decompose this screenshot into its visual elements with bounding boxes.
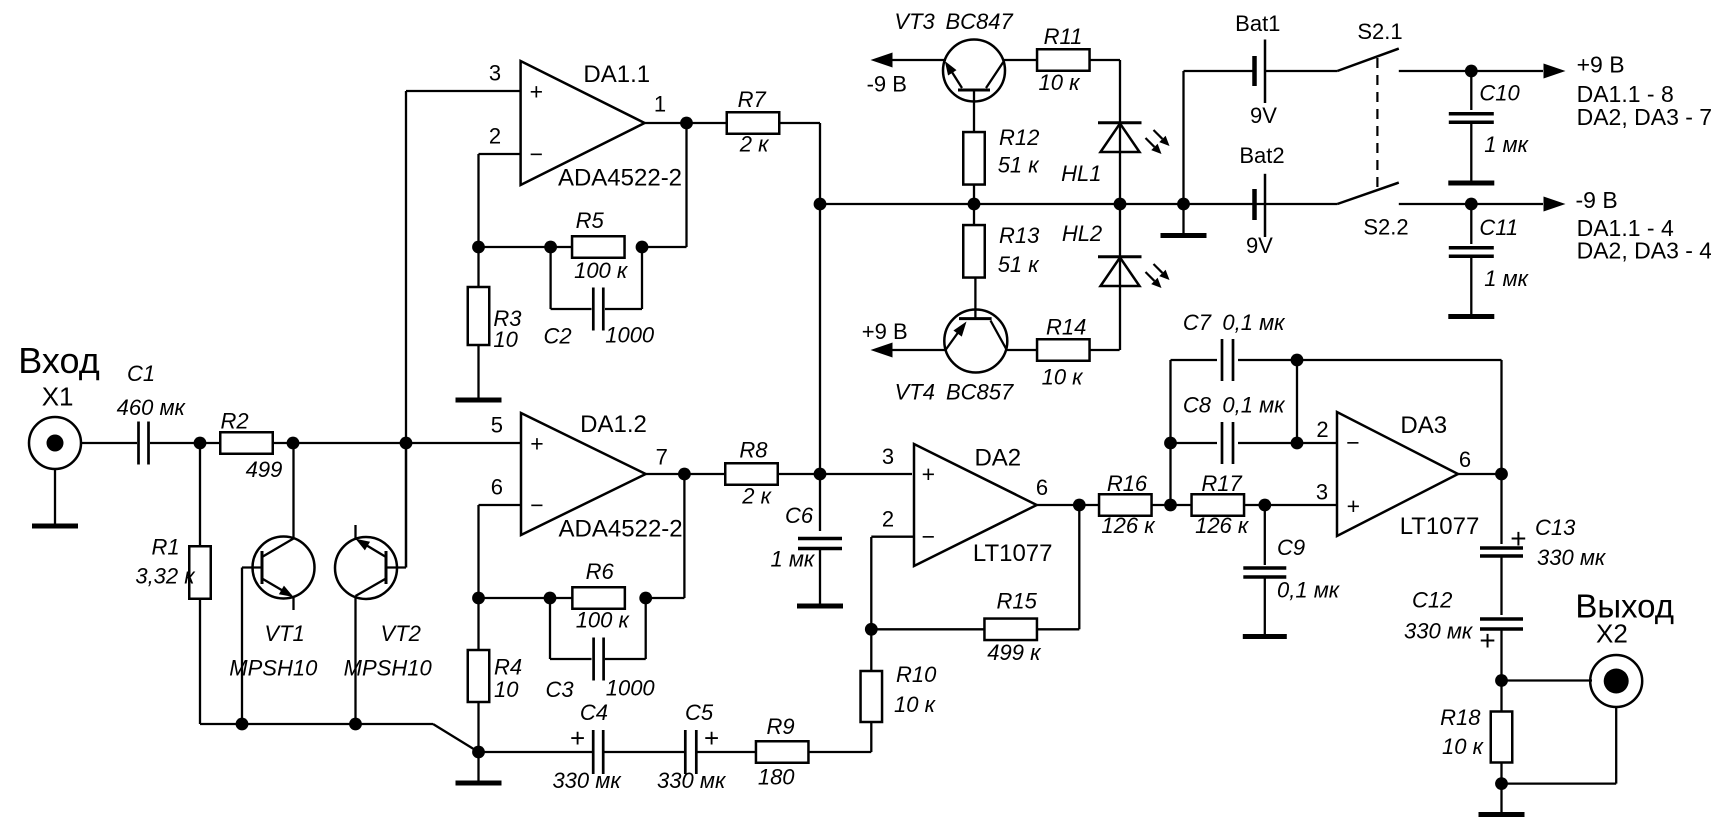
- svg-text:-9 В: -9 В: [867, 71, 907, 96]
- svg-text:Вход: Вход: [18, 340, 99, 381]
- svg-text:10 к: 10 к: [894, 692, 937, 717]
- svg-text:330 мк: 330 мк: [1537, 545, 1607, 570]
- svg-text:DA1.1: DA1.1: [583, 61, 650, 88]
- svg-text:HL1: HL1: [1061, 161, 1101, 186]
- svg-text:460 мк: 460 мк: [117, 395, 187, 420]
- svg-text:499: 499: [246, 457, 283, 482]
- svg-text:X1: X1: [42, 381, 74, 411]
- svg-text:VT3: VT3: [894, 9, 935, 34]
- svg-text:R18: R18: [1440, 705, 1481, 730]
- svg-text:C10: C10: [1479, 81, 1520, 106]
- svg-text:ADA4522-2: ADA4522-2: [559, 515, 683, 542]
- svg-text:S2.2: S2.2: [1363, 215, 1408, 240]
- svg-text:C2: C2: [543, 324, 571, 349]
- svg-text:−: −: [1346, 429, 1359, 455]
- svg-text:2: 2: [1316, 417, 1328, 442]
- svg-text:R11: R11: [1044, 24, 1083, 49]
- svg-text:6: 6: [1036, 475, 1048, 500]
- svg-text:R8: R8: [739, 438, 768, 463]
- svg-text:R14: R14: [1046, 314, 1086, 339]
- svg-text:+: +: [1479, 625, 1495, 656]
- svg-text:+: +: [570, 723, 585, 753]
- svg-text:Bat2: Bat2: [1239, 143, 1284, 168]
- svg-text:BC847: BC847: [946, 9, 1014, 34]
- svg-text:+9 В: +9 В: [1577, 52, 1625, 78]
- svg-text:BC857: BC857: [946, 379, 1014, 404]
- svg-text:126 к: 126 к: [1101, 513, 1156, 538]
- svg-text:3: 3: [882, 444, 894, 469]
- svg-text:+: +: [530, 78, 543, 104]
- svg-text:+: +: [704, 723, 719, 753]
- svg-text:0,1 мк: 0,1 мк: [1277, 578, 1341, 603]
- svg-text:R6: R6: [586, 559, 615, 584]
- svg-text:R9: R9: [767, 714, 795, 739]
- svg-text:100 к: 100 к: [576, 608, 631, 633]
- svg-text:−: −: [922, 524, 935, 550]
- svg-text:VT2: VT2: [381, 621, 421, 646]
- svg-text:R16: R16: [1107, 471, 1148, 496]
- svg-text:C8: C8: [1183, 393, 1212, 418]
- svg-text:0,1 мк: 0,1 мк: [1222, 310, 1286, 335]
- svg-text:R4: R4: [494, 655, 522, 680]
- svg-text:C4: C4: [580, 700, 608, 725]
- svg-text:10: 10: [494, 677, 519, 702]
- svg-text:9V: 9V: [1246, 233, 1273, 258]
- svg-text:330 мк: 330 мк: [552, 768, 622, 793]
- svg-text:180: 180: [758, 765, 795, 790]
- svg-text:51 к: 51 к: [998, 252, 1041, 277]
- svg-text:DA3: DA3: [1400, 412, 1447, 439]
- svg-text:X2: X2: [1596, 618, 1628, 648]
- svg-text:VT4: VT4: [895, 379, 935, 404]
- svg-text:+: +: [1347, 493, 1360, 519]
- svg-text:DA1.2: DA1.2: [580, 411, 647, 438]
- svg-text:3,32 к: 3,32 к: [135, 564, 196, 589]
- svg-text:MPSH10: MPSH10: [229, 656, 318, 681]
- svg-text:−: −: [530, 492, 543, 518]
- svg-text:VT1: VT1: [264, 621, 304, 646]
- svg-text:C5: C5: [685, 700, 714, 725]
- svg-text:2 к: 2 к: [741, 484, 772, 509]
- svg-text:C13: C13: [1535, 515, 1576, 540]
- svg-text:1000: 1000: [605, 322, 655, 347]
- svg-text:R5: R5: [576, 208, 605, 233]
- svg-text:1 мк: 1 мк: [1484, 132, 1529, 157]
- svg-text:330 мк: 330 мк: [1404, 618, 1474, 643]
- svg-text:10 к: 10 к: [1042, 364, 1085, 389]
- svg-text:C9: C9: [1277, 535, 1305, 560]
- svg-text:C7: C7: [1183, 310, 1212, 335]
- svg-text:C3: C3: [546, 677, 575, 702]
- svg-text:C6: C6: [785, 503, 814, 528]
- svg-text:R15: R15: [997, 589, 1038, 614]
- svg-text:DA2, DA3 - 4: DA2, DA3 - 4: [1577, 238, 1711, 264]
- svg-text:3: 3: [489, 61, 501, 86]
- svg-text:6: 6: [1459, 447, 1471, 472]
- svg-text:LT1077: LT1077: [973, 540, 1053, 567]
- svg-text:DA2: DA2: [974, 445, 1021, 472]
- svg-text:−: −: [530, 141, 543, 167]
- svg-text:R10: R10: [896, 662, 937, 687]
- svg-text:126 к: 126 к: [1195, 513, 1250, 538]
- svg-text:10 к: 10 к: [1442, 734, 1485, 759]
- svg-text:1000: 1000: [606, 676, 656, 701]
- svg-text:5: 5: [491, 413, 503, 438]
- svg-text:3: 3: [1316, 480, 1328, 505]
- svg-text:+: +: [530, 431, 543, 457]
- svg-text:51 к: 51 к: [998, 153, 1041, 178]
- svg-text:7: 7: [656, 445, 668, 470]
- svg-text:R7: R7: [738, 87, 767, 112]
- svg-text:10: 10: [493, 327, 518, 352]
- svg-text:R2: R2: [220, 409, 248, 434]
- svg-text:R17: R17: [1201, 471, 1242, 496]
- svg-text:Bat1: Bat1: [1235, 11, 1280, 36]
- svg-text:0,1 мк: 0,1 мк: [1222, 393, 1286, 418]
- svg-text:R1: R1: [151, 535, 179, 560]
- svg-text:9V: 9V: [1250, 103, 1277, 128]
- svg-text:C11: C11: [1479, 215, 1518, 240]
- svg-text:C1: C1: [127, 361, 155, 386]
- svg-text:330 мк: 330 мк: [657, 768, 727, 793]
- svg-text:1 мк: 1 мк: [1484, 266, 1529, 291]
- svg-text:2: 2: [882, 507, 894, 532]
- svg-text:6: 6: [491, 475, 503, 500]
- svg-text:2: 2: [489, 124, 501, 149]
- svg-text:R13: R13: [999, 223, 1040, 248]
- svg-text:-9 В: -9 В: [1576, 187, 1618, 213]
- svg-text:C12: C12: [1412, 587, 1452, 612]
- svg-text:R12: R12: [999, 125, 1039, 150]
- svg-text:DA2, DA3 - 7: DA2, DA3 - 7: [1577, 104, 1711, 130]
- svg-text:+: +: [922, 461, 935, 487]
- svg-text:1 мк: 1 мк: [770, 546, 815, 571]
- svg-text:2 к: 2 к: [739, 132, 770, 157]
- svg-text:HL2: HL2: [1062, 221, 1102, 246]
- svg-text:ADA4522-2: ADA4522-2: [558, 164, 682, 191]
- svg-text:+9 В: +9 В: [862, 319, 908, 344]
- svg-text:1: 1: [654, 92, 666, 117]
- svg-text:MPSH10: MPSH10: [344, 656, 433, 681]
- svg-text:499 к: 499 к: [987, 640, 1042, 665]
- svg-text:10 к: 10 к: [1039, 70, 1082, 95]
- svg-text:S2.1: S2.1: [1357, 19, 1402, 44]
- svg-text:100 к: 100 к: [574, 258, 629, 283]
- svg-text:+: +: [1510, 523, 1526, 554]
- svg-text:LT1077: LT1077: [1400, 513, 1480, 540]
